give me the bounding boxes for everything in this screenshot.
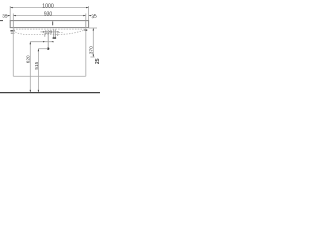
dim 930 extension line left [12,14,14,21]
drain pipe left wall [53,30,55,38]
dim 370 line [92,28,94,57]
dim 620 arrow top [30,42,31,44]
siphon cutout right dashed edge [57,33,59,36]
left fixing mark upper bar [10,30,14,31]
floor line [0,92,100,94]
dim 370 extension line bottom [90,56,94,58]
svg-text:515: 515 [34,61,39,69]
svg-text:370: 370 [89,46,95,54]
dim 620 arrow bottom [30,90,31,92]
dim 120 dashes right [59,31,64,33]
drain outlet dot [47,48,49,50]
dim 35 left line [6,15,10,17]
basin inner left edge [12,21,14,28]
svg-text:25: 25 [95,58,100,64]
basin inner right edge [85,21,87,28]
dim 930 extension line right [85,14,87,21]
corner mark top-left [0,20,3,22]
dim 620 line [29,42,31,93]
dim 620 extension arrow b [52,41,54,42]
svg-text:1000: 1000 [42,3,54,9]
siphon cutout left dashed edge [44,33,46,36]
right fixing mark [85,29,88,31]
dim 1000 extension line left [9,6,11,21]
dim 120 line [40,31,58,33]
svg-text:620: 620 [26,55,31,63]
dim 930 arrow right [83,15,85,16]
dim 370 arrow bottom [93,55,94,57]
cabinet left side [12,28,14,77]
left fixing mark lower bar [11,33,15,34]
hidden dashed line under basin [13,28,86,30]
dim 120 arrow left [43,31,45,32]
drain pipe cap [53,37,57,38]
drain outlet line [47,33,49,48]
dim 35 right arrow [89,15,91,16]
dim 515 extension line [38,48,48,50]
svg-text:930: 930 [44,12,53,18]
dim 1000 arrow right [86,7,88,8]
tap hole centerline [52,21,54,25]
washbasin outline [10,21,88,28]
dim 1000 extension line right [88,6,90,21]
dim 515 arrow bottom [38,90,39,92]
dim 35 left arrow [8,15,10,16]
hidden bowl bottom dashed curve [13,30,86,35]
dim 930 line [13,15,86,17]
dim 370 arrow top [93,28,94,30]
dim 35 right line [89,15,91,17]
svg-text:35: 35 [2,14,8,20]
dim 620 extension arrow a [43,41,45,42]
dim 1000 arrow left [10,7,12,8]
drain pipe right wall [54,30,56,38]
dim 930 arrow left [13,15,15,16]
dim 1000 line [10,7,88,9]
dim 515 arrow top [38,49,39,51]
dim 515 line [37,49,39,93]
svg-text:120: 120 [45,29,53,34]
cabinet right side [85,28,87,77]
dim 120 arrow right [57,31,59,32]
dim 370 extension line top [89,27,97,29]
dim 620 extension line [30,41,53,43]
cabinet bottom [13,75,86,77]
